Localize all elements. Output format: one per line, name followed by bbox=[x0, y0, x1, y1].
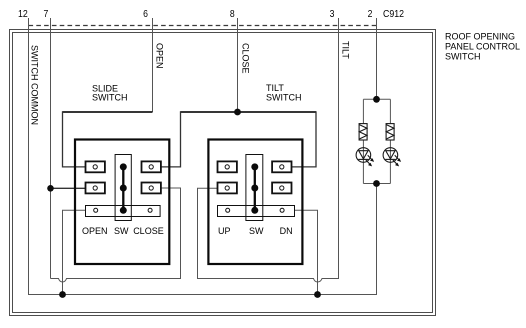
connector C912 dashed line bbox=[29, 25, 377, 27]
slide contact row2-right bbox=[142, 183, 161, 194]
wire pin 2 down to LED top junction bbox=[376, 18, 378, 99]
svg-text:SW: SW bbox=[114, 226, 129, 236]
svg-text:ROOF OPENING: ROOF OPENING bbox=[445, 32, 515, 42]
tilt slider frame bbox=[246, 155, 263, 221]
wire OPEN: pin 6 down bbox=[152, 18, 154, 112]
svg-text:UP: UP bbox=[218, 226, 231, 236]
wire tilt common row3 leg to bottom bus bbox=[295, 210, 318, 294]
svg-text:SWITCH: SWITCH bbox=[445, 51, 481, 61]
junction dot LED top bbox=[373, 96, 380, 103]
wire CLOSE: pin 8 down bbox=[237, 18, 239, 112]
svg-text:TILT: TILT bbox=[340, 41, 350, 59]
svg-text:SWITCH: SWITCH bbox=[92, 93, 128, 103]
slide contact row2-left bbox=[86, 183, 105, 194]
tilt contact row1-left bbox=[218, 161, 237, 172]
svg-text:C912: C912 bbox=[383, 9, 404, 20]
slide slider bar with dots bbox=[120, 163, 127, 213]
svg-text:TILT: TILT bbox=[266, 83, 284, 93]
LED right branch wire bbox=[389, 99, 391, 183]
tilt common strip row3 bbox=[218, 206, 295, 217]
resistor R2 bbox=[386, 124, 394, 140]
wire CLOSE leg to slide row1-right bbox=[161, 111, 181, 167]
LED bottom bar bbox=[363, 183, 390, 185]
svg-text:8: 8 bbox=[230, 9, 235, 20]
LED D2 bbox=[383, 148, 401, 167]
slide common strip row3 bbox=[86, 206, 161, 217]
LED top bar bbox=[363, 98, 390, 100]
svg-text:SWITCH COMMON: SWITCH COMMON bbox=[30, 45, 40, 125]
wire pin 7 vertical bbox=[50, 18, 52, 279]
svg-text:CLOSE: CLOSE bbox=[133, 226, 164, 236]
wire pin7 bus with hop over slide common leg, up to slide row2-right bbox=[51, 188, 181, 282]
svg-text:2: 2 bbox=[368, 9, 373, 20]
junction dot CLOSE bbox=[234, 109, 241, 116]
wire CLOSE horizontal bbox=[181, 111, 317, 113]
slide contact row1-right bbox=[142, 161, 161, 172]
svg-text:12: 12 bbox=[18, 9, 28, 20]
wire slide common row3 leg to bottom bus bbox=[63, 210, 86, 294]
wire dot to slide row2-left contact bbox=[51, 187, 86, 189]
junction dot tilt common bbox=[314, 291, 321, 298]
wire OPEN leg to slide row1-left bbox=[63, 111, 86, 167]
wire CLOSE leg to tilt row1-right bbox=[292, 111, 317, 167]
tilt contact row1-right bbox=[272, 161, 291, 172]
svg-text:DN: DN bbox=[280, 226, 293, 236]
wire TILT: pin 3 down, bus with hop over tilt common leg, up to tilt row2-left bbox=[198, 18, 339, 282]
tilt slider bar with dots bbox=[251, 163, 258, 213]
slide switch box bbox=[75, 140, 169, 265]
slide contact row1-left bbox=[86, 161, 105, 172]
junction dot pin7 to slide row2-left bbox=[47, 185, 54, 192]
svg-text:SW: SW bbox=[249, 226, 264, 236]
LED D1 bbox=[356, 148, 374, 167]
tilt switch box bbox=[208, 140, 302, 265]
LED left branch wire bbox=[362, 99, 364, 183]
svg-text:SWITCH: SWITCH bbox=[266, 93, 302, 103]
wire OPEN horizontal bbox=[63, 111, 153, 113]
slide slider frame bbox=[115, 155, 131, 221]
svg-text:3: 3 bbox=[330, 9, 335, 20]
svg-text:OPEN: OPEN bbox=[82, 226, 108, 236]
wire pin 12 vertical + bottom common bus + LED return riser bbox=[29, 18, 377, 295]
inner box bbox=[13, 33, 433, 313]
tilt contact row2-left bbox=[218, 183, 237, 194]
svg-text:OPEN: OPEN bbox=[155, 43, 165, 69]
junction dot LED bottom bbox=[373, 180, 380, 187]
junction dot slide common bbox=[59, 291, 66, 298]
svg-text:PANEL CONTROL: PANEL CONTROL bbox=[445, 42, 520, 52]
tilt contact row2-right bbox=[272, 183, 291, 194]
svg-text:CLOSE: CLOSE bbox=[241, 43, 251, 74]
outer box bbox=[10, 30, 436, 316]
svg-text:7: 7 bbox=[44, 9, 49, 20]
resistor R1 bbox=[359, 124, 367, 140]
svg-text:6: 6 bbox=[143, 9, 148, 20]
